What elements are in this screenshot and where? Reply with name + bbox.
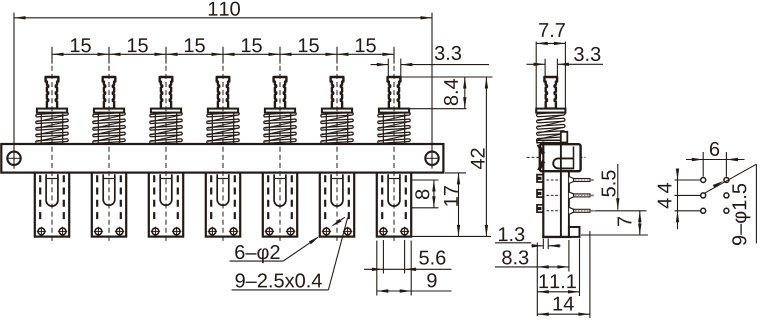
grid pins row 2 — [701, 193, 729, 198]
dim 8.3 — [495, 250, 569, 268]
centerline 2 — [108, 66, 110, 244]
dim 42 — [471, 77, 488, 236]
dim 6 ext — [703, 152, 726, 177]
dim 8.4 — [444, 77, 467, 109]
dim 14 — [537, 297, 590, 316]
centerline 1 — [51, 66, 53, 244]
dim 7.7 — [536, 23, 565, 45]
leader 6-phi2 — [230, 235, 321, 263]
ext pin3 — [594, 210, 646, 212]
ext 8.3 right — [568, 240, 570, 272]
extension line plate bottom — [445, 172, 466, 174]
centerline 3 — [165, 66, 167, 244]
side ribs — [537, 175, 543, 213]
centerline 6 — [336, 66, 338, 244]
ext left — [536, 243, 538, 317]
ext side body bottom — [581, 234, 648, 236]
dim 7 — [618, 211, 642, 235]
dim 7.7 ext — [536, 42, 565, 109]
side latch tab — [561, 132, 568, 143]
centerline 5 — [279, 66, 281, 244]
side body — [542, 142, 579, 238]
switch unit 1 button+spring — [36, 77, 68, 144]
ext 11.1 right — [579, 239, 581, 297]
side centerline dashed — [527, 156, 586, 158]
switch unit 4 button+spring — [207, 77, 239, 144]
ext 14 right — [589, 231, 591, 318]
mounting hole at x=432 — [425, 152, 438, 165]
switch unit 2 button+spring — [93, 77, 125, 144]
dim 5.6 — [364, 240, 452, 274]
dim 3.3 side ext — [545, 59, 557, 77]
extension lines slot — [411, 180, 439, 208]
switch unit 3 button+spring — [150, 77, 182, 144]
centerline 4 — [222, 66, 224, 244]
extension line body bottom — [412, 235, 491, 237]
dim 15 pitch chain — [52, 38, 394, 63]
switch unit 7 button+spring — [378, 77, 410, 144]
mounting plate — [1, 144, 443, 173]
side spring seat — [537, 140, 561, 142]
switch body 1 — [35, 173, 69, 237]
grid pins row 3 — [701, 208, 729, 213]
mounting hole at x=14 — [7, 152, 20, 165]
switch body 2 — [92, 173, 126, 237]
switch unit 5 button+spring — [264, 77, 296, 144]
side spring — [537, 112, 566, 142]
dim 9 — [377, 241, 452, 296]
side plunger — [544, 77, 557, 109]
side latch housing — [540, 144, 581, 171]
switch unit 6 button+spring — [321, 77, 353, 144]
dim 3.3 side — [527, 47, 604, 66]
switch body 5 — [263, 173, 297, 237]
dim 3.3 front — [371, 46, 490, 76]
extension line flange top — [410, 108, 467, 110]
switch body 6 — [320, 173, 354, 237]
dim 8 — [415, 180, 435, 208]
grid row lines — [675, 180, 701, 211]
centerline 7 — [393, 66, 395, 244]
side flange — [536, 109, 565, 113]
dim 1.3 — [495, 227, 561, 249]
dim 110 — [14, 2, 432, 20]
switch body 7 — [377, 173, 411, 237]
dim 5.5 — [602, 164, 620, 210]
dim 17 — [444, 173, 460, 237]
leader 9-phi1.5 — [705, 164, 757, 245]
dim 6 — [686, 142, 745, 161]
dim 11.1 — [537, 274, 579, 293]
grid pins row 1 — [701, 178, 729, 183]
switch body 4 — [206, 173, 240, 237]
dim 4 4 — [658, 169, 680, 230]
side terminal pins — [547, 177, 594, 215]
dim 110 extension lines — [14, 13, 432, 169]
extension line cap top — [401, 76, 493, 78]
leader 9-2.5x0.4 — [232, 217, 348, 290]
switch body 3 — [149, 173, 183, 237]
side plate clip — [537, 144, 546, 170]
